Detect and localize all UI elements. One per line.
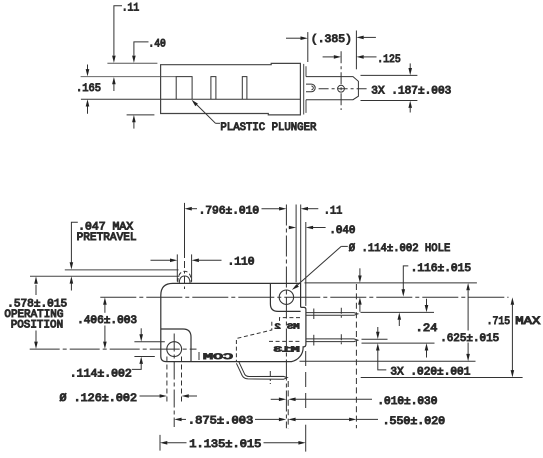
svg-text:.116±.015: .116±.015 [411,263,472,275]
extension lines 1.135 [159,435,161,451]
extension lines .110 [176,254,178,281]
end cap inner line [303,64,305,115]
svg-text:.125: .125 [377,54,401,66]
svg-text:.010±.030: .010±.030 [377,396,437,408]
dimension .040 [289,227,290,229]
centerline plunger vertical [184,203,186,258]
svg-text:.40: .40 [148,39,166,51]
dimension .875 [174,418,181,422]
free position line [65,269,179,271]
dimension .796±.010 [185,207,192,211]
plunger dome free (dashed) [178,271,192,282]
svg-text:.715: .715 [487,316,511,328]
wire lead bottom / housing seam line [81,98,301,100]
svg-text:1.135±.015: 1.135±.015 [189,439,261,451]
extension line plunger top right [361,74,418,76]
svg-text:3X .187±.003: 3X .187±.003 [371,85,451,97]
dimension .010±.030 [271,398,279,400]
svg-text:(.385): (.385) [311,34,352,46]
extension line terminal3 bottom right [361,377,523,379]
tick terminal 2 [313,335,315,346]
svg-text:.11: .11 [122,3,140,15]
svg-text:MAX: MAX [515,316,540,328]
centerline top hole horizontal [100,296,508,298]
svg-text:.040: .040 [329,225,355,237]
centerline horizontal (plunger axis) [319,88,370,90]
centerline top hole vertical [285,205,287,429]
leader Ø.114 hole [341,245,348,247]
svg-text:.114±.002: .114±.002 [70,369,132,381]
dimension .11 leader [114,6,122,56]
dimension 3X .187 arrows [409,63,411,68]
extension line terminal2 top short [362,338,388,340]
svg-text:.406±.003: .406±.003 [77,315,137,327]
dimension .24 arrows [426,299,428,306]
dimension .406 [103,297,107,304]
tick terminal 3 [269,371,271,384]
leader PLASTIC PLUNGER [216,122,221,124]
hole bottom-left [167,342,182,357]
svg-text:MS 2: MS 2 [275,323,300,331]
dimension Ø.126 [140,395,161,397]
terminal 2 (middle blade) [306,339,358,342]
switch housing outline (top view) [161,63,301,115]
extension line body bottom right [300,360,476,362]
centerline bottom hole vertical [173,334,175,428]
slot 1 (plunger window) [176,77,192,100]
extension line (.385)/.125 right [355,31,357,70]
hidden line hole silhouette right [181,357,183,403]
extension line terminal1 top [361,311,435,313]
svg-text:.796±.010: .796±.010 [199,206,260,218]
dimension 1.135 [160,441,167,445]
wire body-top extension line [107,62,157,64]
arrow .40 bottom [132,115,136,122]
hidden line boss edge extension down [305,351,307,414]
svg-text:.24: .24 [416,323,438,335]
dimension .165 arrows [87,65,89,71]
svg-text:COM: COM [203,352,233,362]
dimension .715 [511,297,515,304]
extension line plunger bottom right [361,100,418,102]
svg-text:PRETRAVEL: PRETRAVEL [77,232,137,244]
hole top-right [279,290,293,304]
extension line terminal2 bottom [362,342,435,344]
svg-text:.165: .165 [76,83,101,95]
hidden mechanism dashed outline [280,318,301,322]
svg-text:Ø .114±.002 HOLE: Ø .114±.002 HOLE [349,243,451,255]
hidden line terminal tips vertical [355,284,357,428]
end cap step lines [305,66,307,76]
wire lead top line [81,76,177,78]
svg-text:.625±.015: .625±.015 [440,333,499,345]
pin hole circle [338,85,345,92]
terminal 1 (top blade) [306,313,358,316]
dimension .625 [466,283,470,290]
slot 3 [242,77,247,100]
svg-text:.11: .11 [324,205,343,217]
centerline vertical through pin hole [340,51,342,110]
hidden line hole silhouette left [166,357,168,403]
slot 2 [211,77,216,100]
dimension .550 [288,418,295,422]
terminal 3 (bent common blade) [236,362,287,379]
extension line body top right [305,282,477,284]
extension lines .796 / .11 / .040 [295,205,297,283]
wire body-bottom extension line [127,114,155,116]
svg-text:.550±.020: .550±.020 [383,416,446,428]
svg-text:Ø .126±.002: Ø .126±.002 [60,393,138,405]
tick terminal 1 [313,309,315,320]
switch body outline [161,283,306,361]
mounting boss internal outline (bottom left) [161,329,191,362]
hidden line terminal3 tip vertical [287,381,289,428]
dimension (.385) [286,37,301,39]
dimension .11 (body edge) [301,207,308,211]
extension line (.385) left [307,32,309,62]
svg-text:PLASTIC PLUNGER: PLASTIC PLUNGER [220,122,316,134]
extension lines .114 [134,341,164,343]
dimension .110 [151,259,171,261]
operating position line [30,275,179,277]
hole boss internal outline (top right) [270,283,300,311]
dimension .116 bracket [403,266,408,290]
plunger dome pressed (solid) [179,276,190,283]
svg-text:POSITION: POSITION [11,320,64,332]
dimension .114 arrows [140,328,142,335]
plunger shaft (right side) [306,77,358,100]
svg-text:3X .020±.001: 3X .020±.001 [390,366,470,378]
arrows .116 pair [359,268,361,276]
svg-text:.875±.003: .875±.003 [188,415,254,427]
dimension .40 leader [134,42,149,56]
arrow at terminal1 top [398,313,402,320]
dimension 3X .020 arrows [377,327,379,333]
centerline bottom hole horizontal [30,348,197,350]
svg-text:.110: .110 [228,257,255,269]
eyelet pin [306,84,315,92]
dimension .578 [34,276,38,283]
dimension .047 leader [71,222,77,262]
dimension .125 [323,56,334,58]
